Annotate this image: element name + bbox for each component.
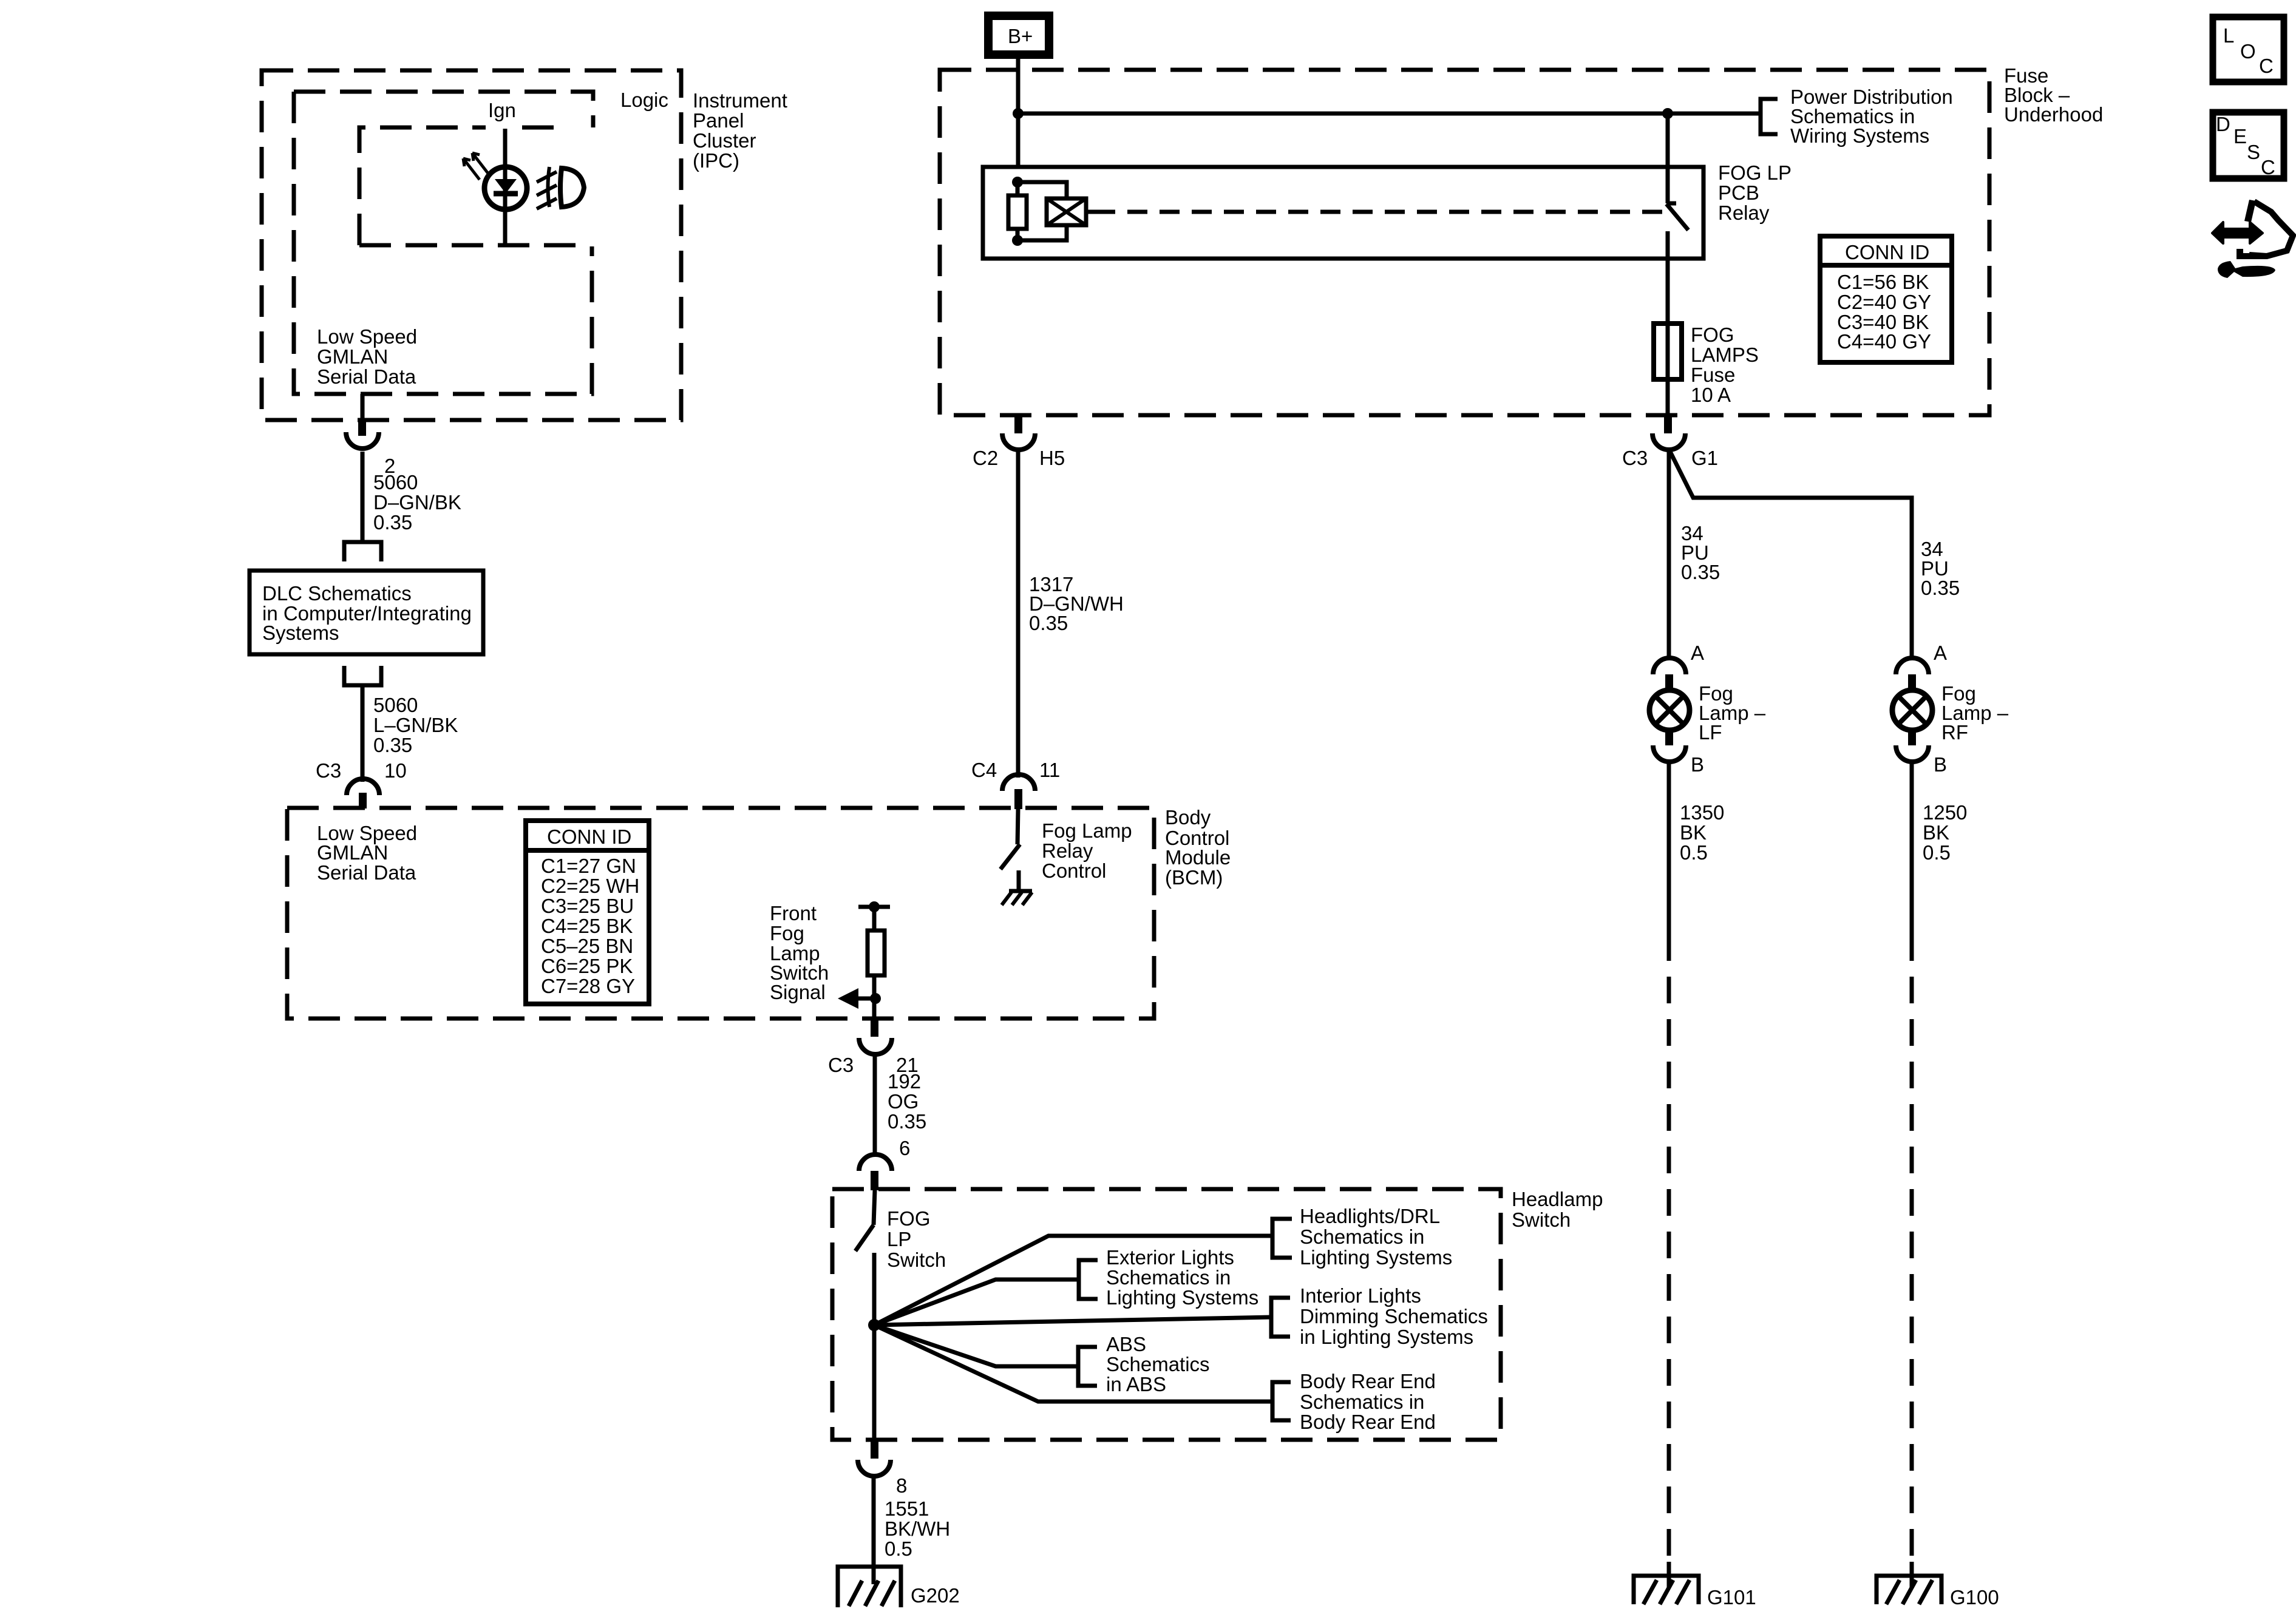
svg-text:A: A <box>1691 642 1704 664</box>
svg-text:RF: RF <box>1941 721 1968 744</box>
svg-text:Switch: Switch <box>887 1249 946 1271</box>
wire relay to fuse <box>1666 259 1670 415</box>
branch wire to RF fog lamp <box>1669 449 1960 660</box>
svg-text:LAMPS: LAMPS <box>1691 344 1759 366</box>
svg-text:H5: H5 <box>1039 447 1065 469</box>
DLC Schematics reference box <box>250 571 483 654</box>
svg-text:A: A <box>1934 642 1947 664</box>
wire 192 OG <box>875 1054 926 1157</box>
svg-text:1350: 1350 <box>1680 801 1724 824</box>
connector pin 6 <box>859 1137 910 1190</box>
svg-text:C4=25 BK: C4=25 BK <box>541 915 633 937</box>
svg-text:GMLAN: GMLAN <box>317 345 388 368</box>
svg-text:C3: C3 <box>1622 447 1648 469</box>
internal ground (relay control) <box>1002 891 1032 905</box>
svg-text:OG: OG <box>888 1090 919 1113</box>
off-page tap to DLC (upper bracket) <box>344 542 381 561</box>
svg-text:C5–25 BN: C5–25 BN <box>541 935 633 957</box>
svg-text:PCB: PCB <box>1718 181 1759 204</box>
relay control dashed line <box>1095 210 1666 214</box>
svg-text:0.5: 0.5 <box>885 1537 912 1560</box>
front fog lamp switch signal node <box>858 901 890 931</box>
svg-text:Fog Lamp: Fog Lamp <box>1042 819 1132 842</box>
svg-text:C3: C3 <box>316 759 341 782</box>
svg-text:C4=40 GY: C4=40 GY <box>1837 330 1931 353</box>
Low Speed GMLAN Serial Data label (BCM) <box>317 822 417 884</box>
svg-text:8: 8 <box>896 1474 907 1497</box>
Headlamp Switch dashed box <box>832 1189 1501 1440</box>
connector C3 pin 21 <box>828 1019 919 1076</box>
fog lamp indicator LED <box>463 153 527 209</box>
wire to LF fog lamp <box>1669 449 1720 660</box>
svg-text:Schematics: Schematics <box>1106 1353 1210 1375</box>
LF lamp connector pin B <box>1653 730 1704 776</box>
svg-text:Wiring Systems: Wiring Systems <box>1790 124 1929 147</box>
in-line connector pin 2 <box>346 419 395 477</box>
svg-text:CONN ID: CONN ID <box>1845 241 1929 263</box>
svg-text:Fuse: Fuse <box>1691 364 1735 386</box>
wire 5060 D-GN/BK <box>362 452 461 541</box>
wire B+ into fuse block <box>1016 59 1021 168</box>
svg-text:Low Speed: Low Speed <box>317 325 417 348</box>
svg-text:in Lighting Systems: in Lighting Systems <box>1300 1326 1473 1348</box>
power distribution wire <box>1018 108 1761 119</box>
relay coil branch junctions <box>1012 177 1067 246</box>
Ign node label <box>488 99 516 121</box>
svg-text:192: 192 <box>888 1070 921 1093</box>
svg-text:O: O <box>2240 40 2256 63</box>
svg-text:Schematics in: Schematics in <box>1300 1225 1424 1248</box>
off-page tap from DLC (lower bracket) <box>344 666 381 685</box>
svg-text:Exterior Lights: Exterior Lights <box>1106 1246 1234 1269</box>
svg-text:Dimming Schematics: Dimming Schematics <box>1300 1305 1488 1327</box>
svg-text:B: B <box>1691 753 1704 776</box>
Headlamp Switch label <box>1512 1188 1603 1231</box>
svg-text:in ABS: in ABS <box>1106 1373 1166 1395</box>
IPC module dashed box <box>262 70 681 420</box>
svg-text:Body Rear End: Body Rear End <box>1300 1411 1436 1433</box>
svg-text:Serial Data: Serial Data <box>317 861 416 884</box>
wire 1551 BK/WH <box>874 1476 950 1567</box>
Logic dashed box <box>294 92 593 127</box>
svg-text:Instrument: Instrument <box>693 89 787 112</box>
svg-text:0.35: 0.35 <box>1029 612 1068 634</box>
svg-text:B+: B+ <box>1008 25 1033 47</box>
svg-text:Schematics in: Schematics in <box>1300 1391 1424 1413</box>
svg-text:BK: BK <box>1680 821 1707 844</box>
svg-text:Serial Data: Serial Data <box>317 365 416 388</box>
Fog Lamp - LF bulb <box>1649 682 1766 744</box>
svg-text:ABS: ABS <box>1106 1333 1146 1355</box>
svg-text:FOG: FOG <box>887 1207 931 1230</box>
Ign wire <box>503 129 508 245</box>
svg-text:0.5: 0.5 <box>1923 841 1951 864</box>
wire 1317 D-GN/WH <box>1018 450 1124 778</box>
service tool icon (arrow and wrench) <box>2212 200 2293 278</box>
svg-text:D–GN/BK: D–GN/BK <box>373 491 461 514</box>
Exterior Lights reference bracket <box>1079 1246 1258 1309</box>
FOG LAMPS fuse 10A <box>1654 324 1759 406</box>
node junction B+ <box>1013 108 1024 119</box>
svg-text:B: B <box>1934 753 1947 776</box>
wire to Body Rear End <box>874 1325 1272 1402</box>
svg-text:E: E <box>2233 125 2247 147</box>
svg-text:0.35: 0.35 <box>1681 561 1720 583</box>
svg-text:C4: C4 <box>971 759 997 781</box>
svg-text:C2=25 WH: C2=25 WH <box>541 875 639 897</box>
svg-text:Panel: Panel <box>693 109 744 132</box>
svg-text:FOG LP: FOG LP <box>1718 161 1792 184</box>
wire 1350 BK <box>1669 761 1724 934</box>
svg-text:FOG: FOG <box>1691 324 1734 346</box>
wire and signal arrow <box>838 975 881 1019</box>
wire 1250 BK <box>1912 761 1967 934</box>
relay switch <box>1666 114 1688 259</box>
svg-text:Module: Module <box>1165 846 1231 869</box>
connector C4 pin 11 <box>971 759 1060 809</box>
ground run to G101 <box>1667 934 1671 1587</box>
connector C3 pin 10 <box>316 759 407 808</box>
svg-text:S: S <box>2247 141 2260 163</box>
svg-text:6: 6 <box>899 1137 910 1159</box>
fog lamp pictograph <box>537 167 584 209</box>
Logic label <box>620 89 668 111</box>
svg-text:C: C <box>2259 55 2274 77</box>
wire switch to pin 8 <box>872 1325 877 1440</box>
svg-text:Relay: Relay <box>1718 202 1770 224</box>
wire to ABS <box>874 1325 1078 1366</box>
svg-text:C3: C3 <box>828 1054 854 1076</box>
svg-text:LF: LF <box>1699 721 1722 744</box>
Front Fog Lamp Switch Signal label <box>770 902 829 1003</box>
svg-text:Relay: Relay <box>1042 839 1093 862</box>
Headlights/DRL reference bracket <box>1272 1205 1452 1269</box>
svg-text:C7=28 GY: C7=28 GY <box>541 975 635 997</box>
svg-text:5060: 5060 <box>373 694 418 716</box>
connector C2 pin H5 <box>973 415 1065 469</box>
svg-text:Fog: Fog <box>770 922 804 944</box>
connector pin 8 <box>858 1440 907 1497</box>
LOC icon <box>2213 17 2284 82</box>
FOG LP switch <box>855 1190 946 1325</box>
wire 5060 L-GN/BK <box>362 685 458 782</box>
svg-text:Logic: Logic <box>620 89 668 111</box>
B+ battery feed <box>988 16 1049 55</box>
svg-text:LP: LP <box>887 1228 911 1250</box>
svg-text:C2: C2 <box>973 447 998 469</box>
svg-text:Systems: Systems <box>262 622 339 644</box>
wire to Exterior Lights <box>874 1280 1079 1325</box>
svg-text:C1=56 BK: C1=56 BK <box>1837 271 1929 293</box>
svg-text:11: 11 <box>1039 759 1060 781</box>
BCM CONN ID table <box>526 821 649 1004</box>
svg-text:Body: Body <box>1165 806 1211 829</box>
svg-text:G1: G1 <box>1691 447 1718 469</box>
svg-text:D: D <box>2216 113 2230 135</box>
svg-text:Front: Front <box>770 902 817 924</box>
Low Speed GMLAN Serial Data label (IPC) <box>317 325 417 388</box>
svg-text:Lighting Systems: Lighting Systems <box>1106 1286 1258 1309</box>
svg-text:L–GN/BK: L–GN/BK <box>373 714 458 736</box>
svg-text:GMLAN: GMLAN <box>317 841 388 864</box>
svg-text:G101: G101 <box>1707 1586 1756 1609</box>
svg-text:0.35: 0.35 <box>1921 577 1960 599</box>
svg-text:Control: Control <box>1042 859 1106 882</box>
svg-text:(IPC): (IPC) <box>693 149 739 172</box>
Instrument Panel Cluster (IPC) label <box>693 89 787 172</box>
switch fan-out node <box>868 1319 880 1331</box>
svg-text:5060: 5060 <box>373 471 418 493</box>
svg-text:1250: 1250 <box>1923 801 1967 824</box>
ground G100 <box>1877 1576 1999 1609</box>
svg-text:Lighting Systems: Lighting Systems <box>1300 1246 1452 1269</box>
svg-text:Signal: Signal <box>770 981 826 1003</box>
connector C3 pin G1 <box>1622 415 1718 469</box>
svg-text:L: L <box>2223 24 2234 47</box>
svg-text:Interior Lights: Interior Lights <box>1300 1284 1421 1307</box>
fuse block CONN ID table <box>1820 236 1952 362</box>
relay suppression resistor <box>1008 195 1027 229</box>
RF lamp connector pin B <box>1896 730 1947 776</box>
Fog Lamp - RF bulb <box>1892 682 2009 744</box>
fog lamp relay control switch <box>1000 809 1020 889</box>
Fuse Block label <box>2004 64 2103 126</box>
Body Rear End reference bracket <box>1272 1370 1436 1433</box>
svg-text:C1=27 GN: C1=27 GN <box>541 855 636 877</box>
svg-text:Schematics in: Schematics in <box>1106 1266 1231 1289</box>
svg-text:0.35: 0.35 <box>373 511 412 534</box>
svg-text:Headlamp: Headlamp <box>1512 1188 1603 1210</box>
ground G202 <box>838 1567 960 1607</box>
relay coil <box>1047 198 1095 225</box>
ground G101 <box>1634 1576 1756 1609</box>
DESC icon <box>2213 112 2284 178</box>
svg-text:10: 10 <box>384 759 407 782</box>
ground run to G100 <box>1910 934 1914 1587</box>
power distribution reference bracket <box>1761 86 1953 147</box>
Fuse Block - Underhood dashed box <box>940 70 1989 415</box>
svg-text:C2=40 GY: C2=40 GY <box>1837 291 1931 313</box>
wire to Headlights/DRL <box>874 1236 1272 1325</box>
svg-text:(BCM): (BCM) <box>1165 866 1223 889</box>
svg-text:BK: BK <box>1923 821 1949 844</box>
svg-text:Switch: Switch <box>1512 1209 1571 1231</box>
wire to Interior Lights <box>874 1317 1271 1325</box>
svg-text:Headlights/DRL: Headlights/DRL <box>1300 1205 1440 1227</box>
wire from IPC to connector <box>361 394 365 420</box>
IPC internal GMLAN dashed box <box>294 92 592 394</box>
pull-up resistor (BCM) <box>868 931 885 975</box>
svg-text:C: C <box>2261 156 2275 178</box>
BCM module dashed box <box>287 808 1154 1019</box>
svg-text:C6=25 PK: C6=25 PK <box>541 955 633 977</box>
FOG LP PCB relay box <box>983 161 1792 259</box>
svg-text:BK/WH: BK/WH <box>885 1517 950 1540</box>
LED indicator dashed box <box>359 127 587 245</box>
svg-text:10 A: 10 A <box>1691 384 1731 406</box>
svg-text:Underhood: Underhood <box>2004 103 2103 126</box>
svg-text:C3=25 BU: C3=25 BU <box>541 895 634 917</box>
svg-text:0.35: 0.35 <box>888 1110 926 1133</box>
svg-text:Cluster: Cluster <box>693 129 756 152</box>
svg-text:CONN ID: CONN ID <box>547 825 631 848</box>
svg-text:DLC Schematics: DLC Schematics <box>262 582 412 605</box>
svg-text:G100: G100 <box>1950 1586 1999 1609</box>
svg-text:0.5: 0.5 <box>1680 841 1708 864</box>
svg-text:Body Rear End: Body Rear End <box>1300 1370 1436 1392</box>
svg-text:G202: G202 <box>911 1584 960 1607</box>
svg-text:0.35: 0.35 <box>373 734 412 756</box>
ABS reference bracket <box>1078 1333 1210 1395</box>
RF lamp connector pin A <box>1896 642 1947 691</box>
Fog Lamp Relay Control label <box>1042 819 1132 882</box>
Body Control Module (BCM) label <box>1165 806 1231 889</box>
svg-text:Ign: Ign <box>488 99 516 121</box>
Interior Lights reference bracket <box>1271 1284 1488 1348</box>
svg-text:1551: 1551 <box>885 1497 929 1520</box>
LF lamp connector pin A <box>1653 642 1704 691</box>
